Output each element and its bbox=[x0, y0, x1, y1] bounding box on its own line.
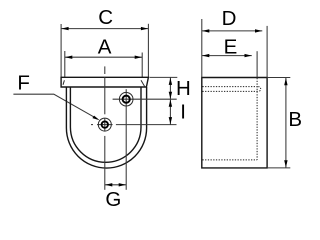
dimension A line bbox=[65, 56, 142, 58]
dimension H arrow up bbox=[169, 78, 172, 85]
svg-text:C: C bbox=[98, 6, 113, 29]
dimension I line bbox=[169, 99, 171, 124]
dimension C arrow left bbox=[61, 27, 68, 30]
dimension D line bbox=[202, 30, 262, 32]
svg-text:H: H bbox=[176, 77, 191, 100]
big hole ring bbox=[123, 96, 130, 103]
svg-text:D: D bbox=[222, 7, 237, 30]
hidden lip bottom dashed bbox=[202, 90, 258, 92]
dimension G arrow right bbox=[119, 183, 126, 186]
dimension I arrow down bbox=[169, 117, 172, 124]
dimension B arrow down bbox=[284, 160, 287, 167]
small hole vertical centerline bbox=[104, 77, 106, 114]
dimension G arrow left bbox=[105, 183, 112, 186]
dimension D arrow right bbox=[255, 29, 262, 32]
dimension E arrow left bbox=[202, 54, 209, 57]
dimension C extension line left bbox=[60, 24, 62, 77]
dimension E arrow right bbox=[245, 54, 252, 57]
dimension A arrow right bbox=[135, 56, 142, 59]
dimension E line bbox=[202, 55, 252, 57]
dimension I arrow up bbox=[169, 100, 172, 107]
leader F arrowhead bbox=[92, 116, 99, 121]
small hole F ring bbox=[102, 121, 108, 127]
flange right end bend line bbox=[141, 80, 145, 86]
dimension A arrow left bbox=[65, 56, 72, 59]
small hole horizontal centerline bbox=[91, 124, 93, 126]
svg-text:G: G bbox=[105, 188, 121, 211]
dimension H arrow down bbox=[169, 92, 172, 99]
dimension D arrow left bbox=[202, 29, 209, 32]
dimension H line bbox=[169, 77, 171, 99]
dimension D extension right (above view) bbox=[266, 26, 268, 78]
dimension A extension line left bbox=[64, 51, 66, 77]
svg-text:E: E bbox=[224, 36, 238, 59]
flange left end bend line bbox=[63, 80, 64, 85]
left view body outer outline bbox=[66, 87, 146, 168]
dimension B arrow up bbox=[284, 78, 287, 85]
svg-text:B: B bbox=[288, 108, 302, 131]
dimension D extension left (above view) bbox=[201, 19, 203, 78]
dimension C line bbox=[61, 28, 148, 30]
right view top edge extension to B bbox=[267, 77, 290, 79]
small hole vertical centerline upper dash bbox=[104, 66, 106, 74]
big hole horizontal centerline bbox=[113, 98, 177, 100]
hidden lip top dashed bbox=[202, 86, 258, 88]
hidden lip line vertical dashed bbox=[256, 78, 258, 160]
dimension H top extension line bbox=[150, 76, 178, 78]
right view body rectangle bbox=[202, 78, 267, 168]
svg-text:F: F bbox=[17, 72, 30, 95]
dimension B line bbox=[285, 78, 287, 168]
big hole outer circle bbox=[119, 92, 133, 106]
big hole vertical centerline bbox=[125, 89, 127, 190]
dimension A extension line right bbox=[141, 53, 143, 78]
hidden inner bottom dashed bbox=[202, 159, 257, 161]
dimension E extension line bbox=[256, 51, 258, 77]
right view bottom edge extension to B bbox=[267, 167, 290, 169]
left view flange outline bbox=[61, 77, 148, 87]
small hole outer circle bbox=[98, 118, 111, 131]
dimension C extension line right bbox=[147, 24, 149, 78]
leader line F bbox=[13, 94, 97, 119]
hidden lip bend arc dashed bbox=[258, 87, 260, 92]
dimension G line bbox=[105, 184, 126, 186]
svg-text:I: I bbox=[180, 100, 186, 123]
dimension C arrow right bbox=[141, 27, 148, 30]
left view body inner outline bbox=[70, 87, 141, 162]
svg-text:A: A bbox=[98, 35, 112, 58]
